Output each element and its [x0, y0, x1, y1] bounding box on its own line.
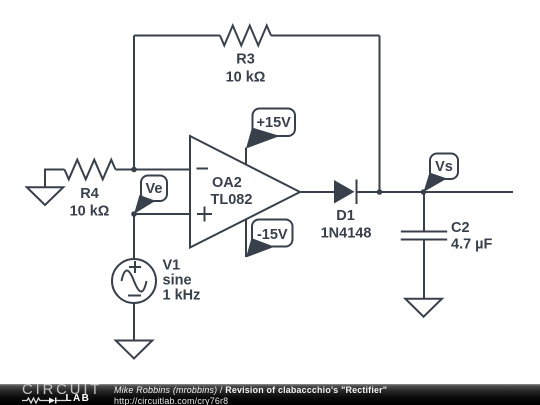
wire: R4 to node A	[116, 169, 135, 171]
power pin stub V-	[245, 219, 247, 258]
op-amp OA2 body	[190, 136, 300, 248]
diode D1 triangle	[334, 180, 355, 204]
wire: op-amp output to diode	[300, 191, 334, 193]
source V1 minus polarity	[128, 295, 141, 297]
svg-text:10 kΩ: 10 kΩ	[70, 204, 110, 220]
wire: V1 to ground	[133, 303, 135, 341]
callout -15V box	[252, 220, 293, 247]
op-amp non-inverting input plus symbol	[197, 207, 212, 222]
svg-text:V1: V1	[163, 258, 181, 274]
svg-text:R4: R4	[80, 186, 99, 202]
resistor R4	[65, 160, 116, 180]
ground (below C2)	[405, 299, 442, 317]
callout -15V tail	[246, 238, 275, 258]
junction: node A	[131, 167, 137, 173]
svg-text:+15V: +15V	[257, 115, 292, 131]
junction: Vs node	[421, 189, 427, 195]
svg-text:10 kΩ: 10 kΩ	[226, 70, 266, 86]
wire: feedback left vertical	[133, 36, 135, 170]
svg-text:D1: D1	[336, 208, 355, 224]
wire: feedback right vertical	[379, 36, 381, 193]
diode D1 cathode bar	[356, 180, 358, 205]
callout +15V box	[253, 109, 296, 137]
source V1 plus polarity	[129, 261, 141, 273]
power pin stub V+	[245, 148, 247, 165]
svg-text:sine: sine	[163, 273, 192, 289]
callout Ve box	[141, 176, 167, 202]
wire: node B to op-amp non-inverting input	[134, 213, 190, 215]
ground (left, at R4 input)	[27, 187, 64, 205]
svg-text:1N4148: 1N4148	[321, 226, 372, 242]
callout Vs box	[430, 154, 458, 180]
wire: top left horizontal	[134, 35, 220, 37]
source V1 sine symbol	[122, 271, 147, 292]
svg-text:-15V: -15V	[257, 227, 288, 243]
footer bar	[0, 384, 540, 405]
svg-text:Vs: Vs	[435, 159, 453, 175]
wire: Vs node to capacitor top plate	[423, 192, 425, 232]
wire: capacitor to ground	[423, 240, 425, 299]
capacitor C2 bottom plate	[401, 239, 447, 241]
footer attribution line	[114, 385, 387, 395]
junction: feedback tap	[377, 189, 383, 195]
CircuitLab logo schematic glyph	[22, 397, 66, 405]
ground (below V1)	[116, 341, 153, 359]
footer url line	[114, 396, 228, 405]
wire: diode to output rail end	[357, 191, 514, 193]
svg-text:R3: R3	[236, 52, 255, 68]
wire: node B down to V1	[133, 214, 135, 259]
wire: node A to op-amp inverting input	[134, 169, 190, 171]
op-amp inverting input minus symbol	[197, 168, 209, 170]
callout Vs tail	[424, 173, 448, 193]
resistor R3	[220, 26, 271, 46]
svg-text:OA2: OA2	[212, 175, 242, 191]
callout +15V tail	[246, 128, 280, 149]
CircuitLab logo CIRCUIT	[22, 385, 102, 396]
junction: node B	[131, 211, 137, 217]
svg-text:1 kHz: 1 kHz	[163, 288, 201, 304]
svg-text:TL082: TL082	[211, 192, 253, 208]
wire: top right horizontal	[271, 35, 380, 37]
capacitor C2 top plate	[401, 231, 447, 233]
source V1 circle	[112, 259, 156, 303]
svg-text:4.7 µF: 4.7 µF	[451, 237, 493, 253]
svg-text:Ve: Ve	[146, 181, 163, 197]
CircuitLab logo LAB	[66, 395, 91, 403]
wire: ground stub to R4 left	[45, 170, 65, 188]
callout Ve tail	[134, 195, 156, 214]
svg-text:C2: C2	[451, 220, 470, 236]
